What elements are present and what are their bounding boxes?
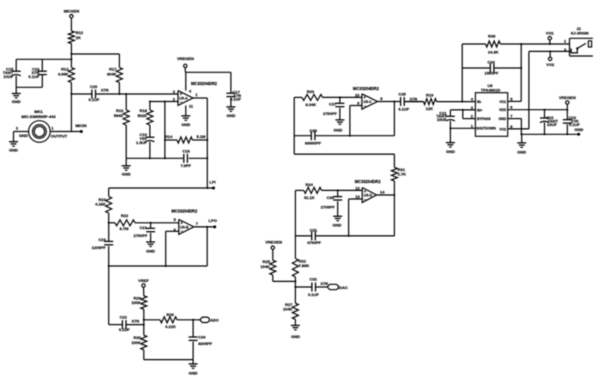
svg-text:MICIN: MICIN — [75, 123, 86, 128]
svg-text:IN+: IN+ — [477, 108, 482, 112]
svg-text:VO2: VO2 — [499, 127, 506, 131]
svg-text:X7R: X7R — [410, 96, 418, 101]
svg-text:2700PF: 2700PF — [133, 233, 148, 238]
svg-text:68000PF: 68000PF — [305, 140, 322, 145]
svg-text:VREGEN: VREGEN — [177, 56, 194, 61]
svg-text:MC33204DR2: MC33204DR2 — [171, 209, 198, 214]
svg-text:GND: GND — [9, 147, 18, 152]
svg-text:532K: 532K — [137, 113, 147, 118]
svg-text:2.7K: 2.7K — [398, 172, 407, 177]
svg-text:104K: 104K — [283, 307, 293, 312]
svg-text:12: 12 — [355, 186, 360, 191]
svg-text:MIC-EM9565P-443: MIC-EM9565P-443 — [21, 114, 56, 119]
svg-text:LPI: LPI — [209, 179, 215, 184]
svg-text:MC33204DR2: MC33204DR2 — [355, 179, 382, 184]
svg-text:+: + — [180, 220, 183, 225]
svg-text:4.22K: 4.22K — [165, 324, 176, 329]
svg-text:10: 10 — [355, 92, 360, 97]
svg-text:DAC: DAC — [339, 285, 348, 290]
svg-text:C32: C32 — [310, 276, 318, 281]
svg-text:TPA4861D: TPA4861D — [481, 88, 501, 93]
svg-text:MC33204DR2: MC33204DR2 — [191, 81, 218, 86]
svg-text:4700PF: 4700PF — [307, 240, 322, 245]
svg-text:C38: C38 — [310, 128, 318, 133]
svg-text:GND: GND — [291, 334, 300, 339]
svg-text:−: − — [364, 197, 367, 202]
svg-text:C23: C23 — [98, 237, 106, 242]
svg-text:R22: R22 — [121, 213, 129, 218]
svg-text:8.7M: 8.7M — [120, 226, 130, 231]
svg-text:GND: GND — [181, 122, 190, 127]
svg-text:10UF: 10UF — [437, 117, 447, 122]
svg-text:SJ-3543N: SJ-3543N — [571, 31, 589, 36]
svg-text:R28: R28 — [166, 312, 174, 317]
svg-text:GND: GND — [334, 128, 343, 133]
svg-text:C20: C20 — [90, 84, 98, 89]
svg-text:0.1UF: 0.1UF — [230, 96, 241, 101]
svg-text:91.1K: 91.1K — [304, 195, 315, 200]
svg-text:VO2: VO2 — [546, 62, 555, 67]
svg-text:C36: C36 — [327, 195, 335, 200]
svg-text:R33: R33 — [307, 89, 315, 94]
svg-text:C35: C35 — [398, 92, 406, 97]
svg-text:LPO: LPO — [209, 218, 217, 223]
svg-text:0.1UF: 0.1UF — [89, 97, 100, 102]
svg-text:VDD: VDD — [499, 108, 507, 112]
svg-text:MC33204DR2: MC33204DR2 — [353, 86, 380, 91]
svg-text:4.99K: 4.99K — [58, 72, 69, 77]
svg-text:GND: GND — [499, 117, 507, 121]
svg-text:−: − — [180, 229, 183, 234]
svg-text:2700PF: 2700PF — [323, 111, 338, 116]
svg-text:10UF: 10UF — [3, 74, 13, 79]
svg-text:SHUTDOWN: SHUTDOWN — [476, 127, 496, 131]
svg-text:X7R: X7R — [101, 88, 109, 93]
svg-text:1500PF: 1500PF — [484, 70, 499, 75]
svg-text:+: + — [364, 189, 367, 194]
svg-text:X7R: X7R — [320, 281, 328, 286]
svg-text:−: − — [363, 103, 366, 108]
svg-text:C31: C31 — [310, 227, 318, 232]
svg-text:8200PF: 8200PF — [198, 341, 213, 346]
svg-text:2K: 2K — [76, 35, 81, 40]
svg-text:VO1: VO1 — [499, 100, 506, 104]
svg-text:MICSEN: MICSEN — [64, 9, 80, 14]
svg-text:GND: GND — [446, 149, 455, 154]
svg-text:R19: R19 — [426, 93, 434, 98]
svg-text:4.18K: 4.18K — [95, 202, 106, 207]
svg-text:VO1: VO1 — [546, 30, 555, 35]
svg-text:GND: GND — [146, 248, 155, 253]
svg-text:GND: GND — [189, 370, 198, 375]
svg-text:GND: GND — [122, 172, 131, 177]
svg-text:24.3K: 24.3K — [488, 50, 499, 55]
svg-text:OUTPUT: OUTPUT — [51, 133, 68, 138]
svg-text:ADC: ADC — [210, 318, 219, 323]
svg-text:C34: C34 — [198, 334, 206, 339]
svg-text:VREGEN: VREGEN — [265, 239, 282, 244]
svg-text:2700PF: 2700PF — [321, 204, 336, 209]
svg-text:C37: C37 — [329, 102, 337, 107]
svg-text:104K: 104K — [260, 264, 270, 269]
svg-text:GND: GND — [574, 127, 583, 132]
svg-text:1.0UF: 1.0UF — [136, 140, 147, 145]
svg-text:VREF: VREF — [138, 278, 149, 283]
svg-text:7.88K: 7.88K — [299, 263, 310, 268]
svg-text:GND: GND — [12, 99, 21, 104]
svg-text:GND: GND — [333, 223, 342, 228]
svg-text:R24: R24 — [306, 182, 314, 187]
svg-text:X7R: X7R — [132, 318, 140, 323]
svg-text:5.1M: 5.1M — [197, 134, 207, 139]
svg-text:10UF: 10UF — [547, 122, 557, 127]
svg-text:+: + — [180, 92, 183, 97]
svg-text:0.1UF: 0.1UF — [308, 292, 319, 297]
svg-text:12K: 12K — [426, 106, 433, 111]
svg-text:0.1UF: 0.1UF — [398, 106, 409, 111]
svg-text:0.1UF: 0.1UF — [28, 74, 39, 79]
svg-text:C18: C18 — [182, 148, 190, 153]
svg-text:R14: R14 — [165, 134, 173, 139]
svg-text:1200PF: 1200PF — [92, 245, 107, 250]
svg-text:14: 14 — [380, 190, 385, 195]
svg-text:7.6PF: 7.6PF — [180, 163, 191, 168]
svg-text:+: + — [363, 95, 366, 100]
svg-text:C22: C22 — [120, 314, 128, 319]
svg-text:GND: GND — [19, 133, 28, 138]
svg-text:604K: 604K — [107, 72, 117, 77]
svg-text:100K: 100K — [131, 340, 141, 345]
svg-text:0.1UF: 0.1UF — [119, 327, 130, 332]
svg-text:R38: R38 — [488, 33, 496, 38]
svg-text:100K: 100K — [131, 300, 141, 305]
svg-text:GND: GND — [517, 149, 526, 154]
svg-text:8.34K: 8.34K — [305, 102, 316, 107]
svg-text:BYPASS: BYPASS — [477, 117, 491, 121]
svg-text:C34: C34 — [487, 59, 495, 64]
svg-text:GND: GND — [226, 113, 235, 118]
svg-text:IN-: IN- — [477, 100, 482, 104]
svg-text:C21: C21 — [140, 225, 148, 230]
svg-text:−: − — [180, 99, 183, 104]
svg-text:VREGEN: VREGEN — [559, 95, 576, 100]
svg-text:594K: 594K — [114, 113, 124, 118]
